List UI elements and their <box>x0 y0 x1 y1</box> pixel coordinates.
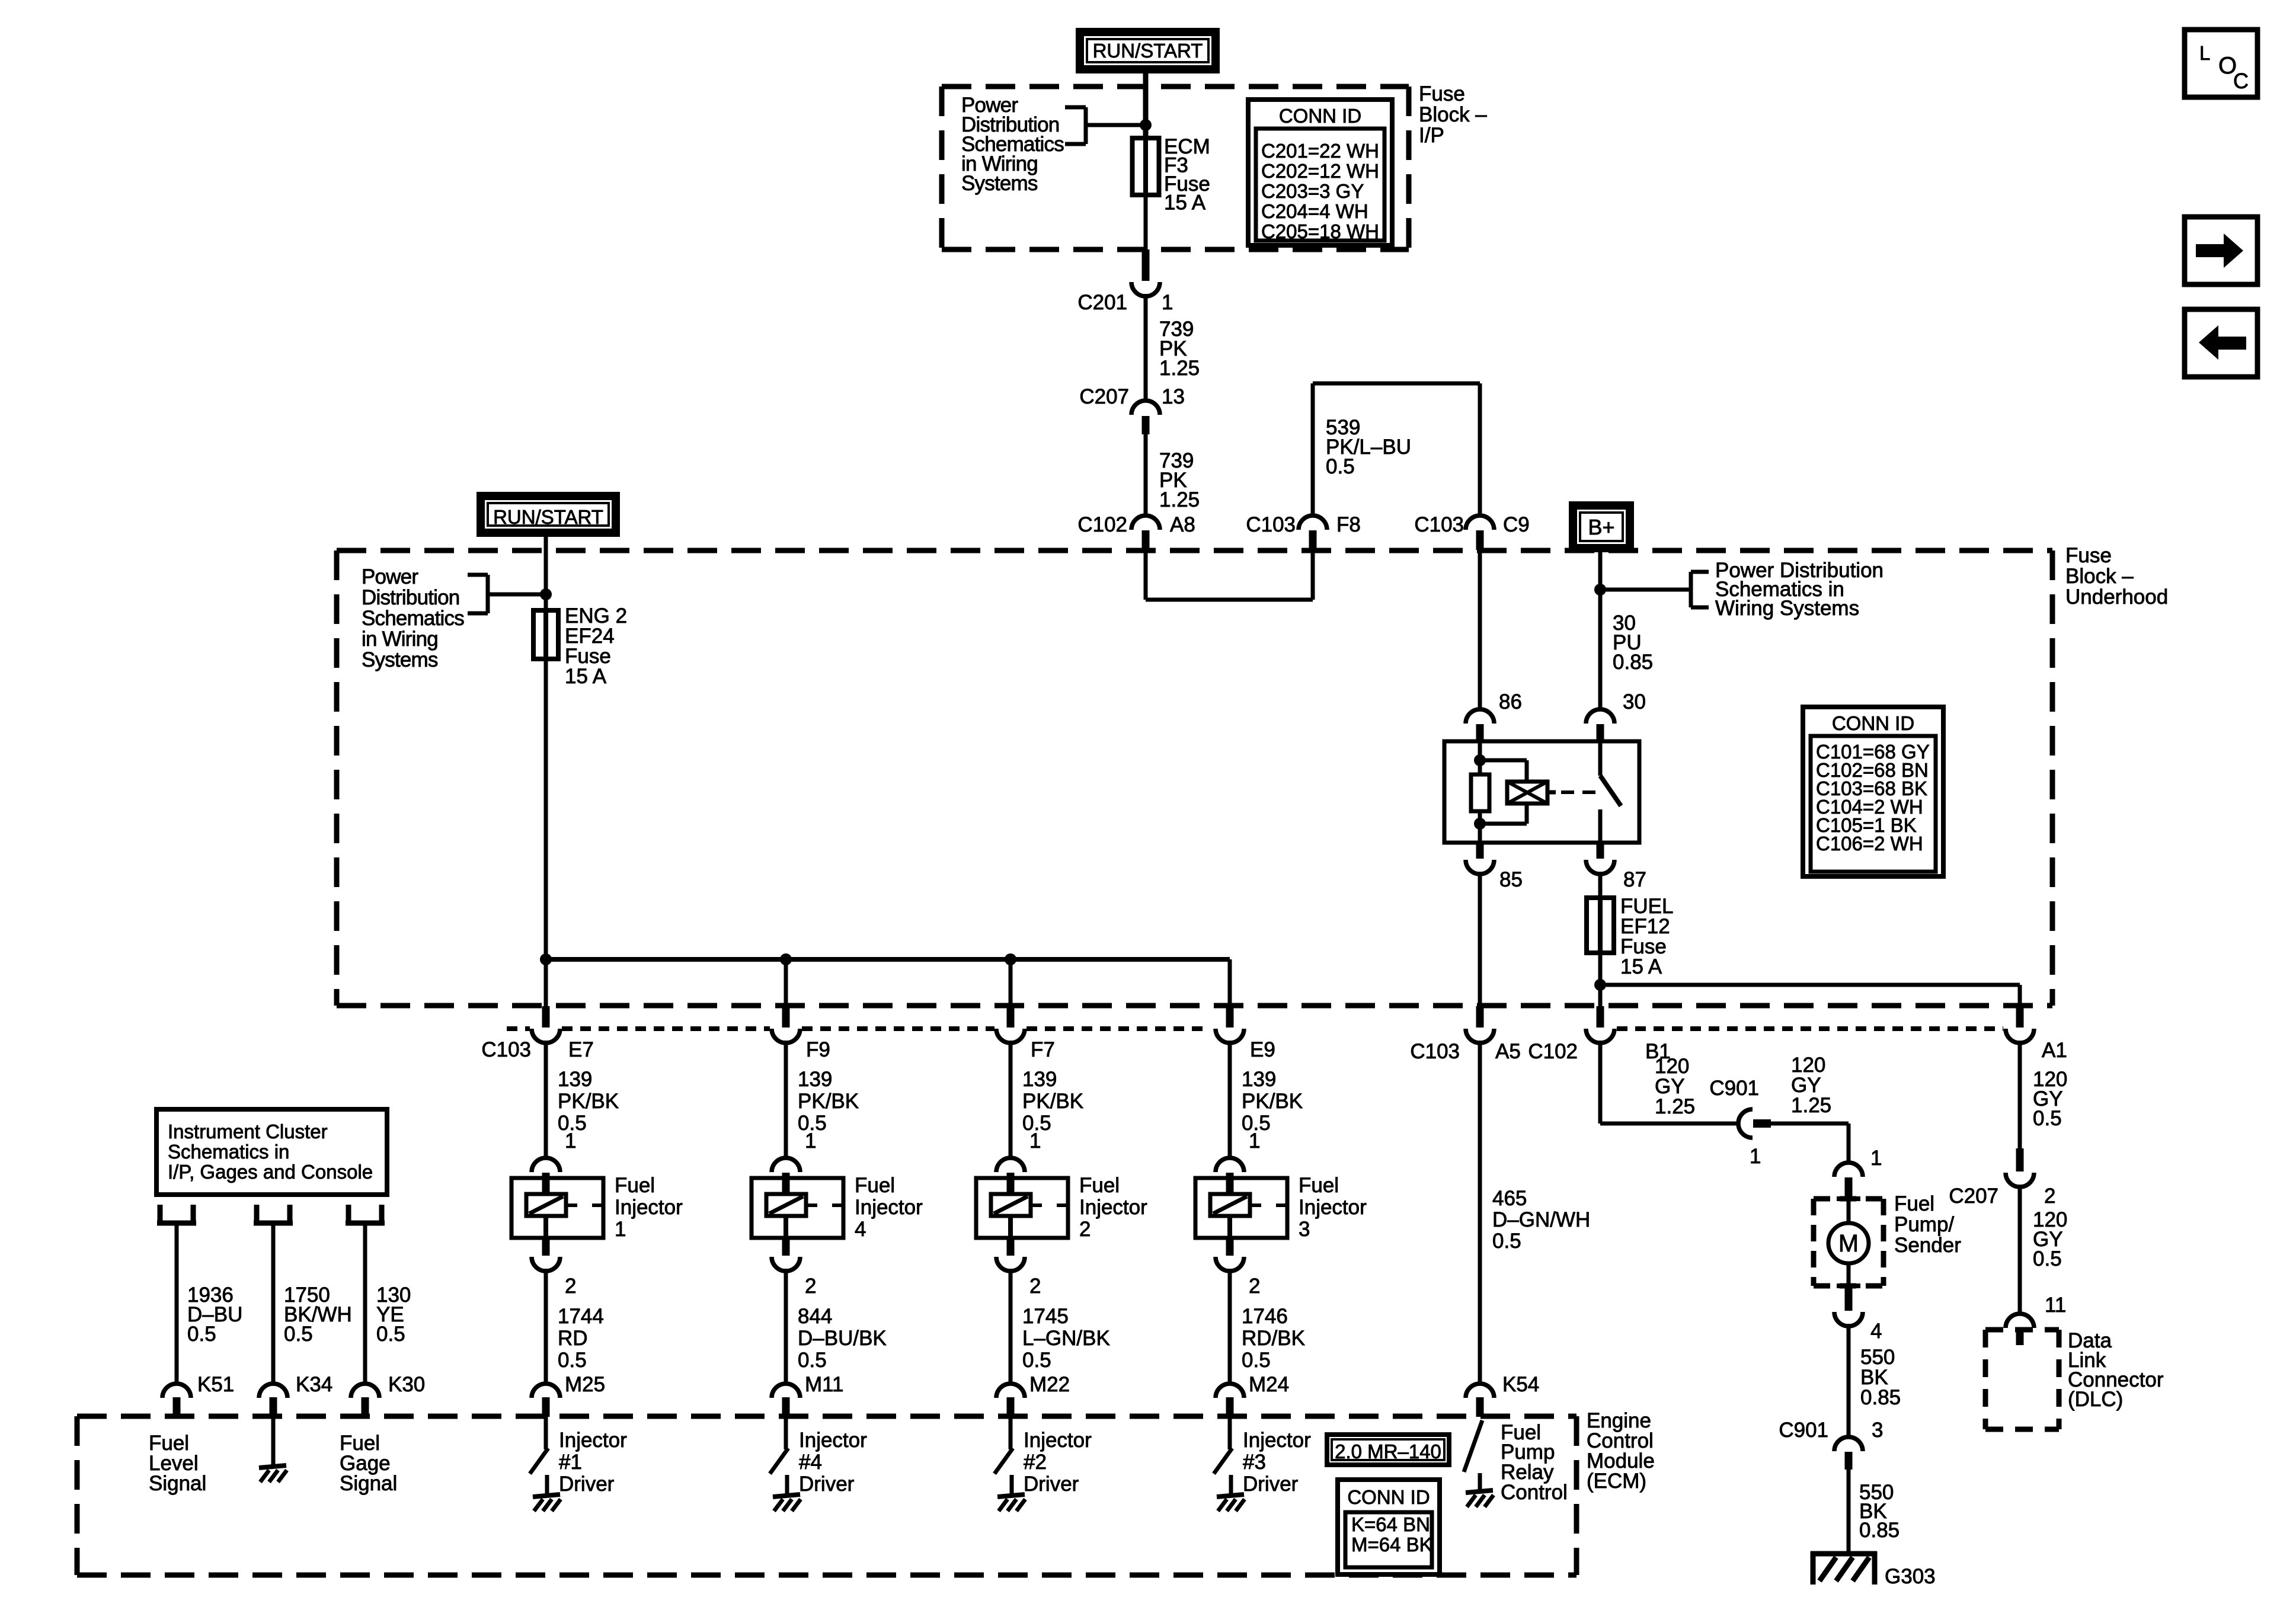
svg-text:1744: 1744 <box>558 1305 604 1328</box>
svg-text:CONN ID: CONN ID <box>1832 712 1914 734</box>
svg-text:Fuel: Fuel <box>855 1174 895 1197</box>
svg-text:M: M <box>1838 1230 1859 1257</box>
svg-text:Systems: Systems <box>362 648 438 671</box>
svg-text:#2: #2 <box>1024 1451 1047 1474</box>
svg-text:CONN ID: CONN ID <box>1279 105 1361 127</box>
svg-text:0.5: 0.5 <box>1326 455 1355 478</box>
svg-text:Injector: Injector <box>559 1429 627 1452</box>
svg-text:0.5: 0.5 <box>558 1112 587 1135</box>
svg-text:C9: C9 <box>1503 513 1530 536</box>
svg-text:RD/BK: RD/BK <box>1242 1327 1305 1350</box>
svg-text:K54: K54 <box>1502 1373 1539 1396</box>
svg-text:139: 139 <box>798 1068 832 1091</box>
svg-text:C204=4 WH: C204=4 WH <box>1261 200 1368 222</box>
svg-text:Fuel: Fuel <box>1894 1192 1934 1215</box>
svg-text:4: 4 <box>855 1218 866 1241</box>
svg-text:1.25: 1.25 <box>1159 488 1200 511</box>
svg-text:Driver: Driver <box>559 1473 615 1496</box>
svg-text:B+: B+ <box>1588 515 1614 539</box>
svg-text:C106=2 WH: C106=2 WH <box>1816 833 1923 854</box>
svg-text:C901: C901 <box>1709 1077 1759 1100</box>
svg-text:Schematics in: Schematics in <box>168 1141 289 1163</box>
svg-text:1: 1 <box>1162 291 1173 314</box>
svg-text:15 A: 15 A <box>1620 955 1662 978</box>
svg-text:A5: A5 <box>1495 1040 1521 1063</box>
svg-text:C203=3 GY: C203=3 GY <box>1261 180 1364 202</box>
svg-text:I/P, Gages and Console: I/P, Gages and Console <box>168 1161 373 1183</box>
svg-text:Injector: Injector <box>799 1429 867 1452</box>
svg-text:RUN/START: RUN/START <box>1093 40 1203 62</box>
svg-text:Pump/: Pump/ <box>1894 1213 1954 1236</box>
svg-text:Driver: Driver <box>1243 1473 1299 1496</box>
svg-text:C207: C207 <box>1079 385 1129 408</box>
svg-text:Fuse: Fuse <box>1419 82 1465 105</box>
svg-text:2: 2 <box>1249 1275 1260 1298</box>
svg-text:M22: M22 <box>1029 1373 1070 1396</box>
svg-text:C103: C103 <box>481 1038 531 1061</box>
svg-text:K34: K34 <box>296 1373 332 1396</box>
svg-text:Systems: Systems <box>961 172 1038 195</box>
svg-text:G303: G303 <box>1885 1565 1936 1588</box>
svg-text:1: 1 <box>615 1218 626 1241</box>
svg-text:2.0 MR–140: 2.0 MR–140 <box>1335 1441 1441 1462</box>
svg-text:0.5: 0.5 <box>1022 1112 1051 1135</box>
svg-text:844: 844 <box>798 1305 832 1328</box>
svg-text:C102: C102 <box>1528 1040 1578 1063</box>
svg-text:0.5: 0.5 <box>2033 1107 2062 1130</box>
svg-text:Block –: Block – <box>1419 103 1487 126</box>
svg-text:Fuel: Fuel <box>1299 1174 1339 1197</box>
svg-text:0.5: 0.5 <box>1242 1349 1271 1372</box>
svg-text:0.5: 0.5 <box>2033 1247 2062 1270</box>
svg-text:30: 30 <box>1623 690 1646 713</box>
svg-text:#4: #4 <box>799 1451 822 1474</box>
svg-text:M25: M25 <box>565 1373 605 1396</box>
svg-text:in Wiring: in Wiring <box>362 628 438 651</box>
svg-text:1.25: 1.25 <box>1159 357 1200 380</box>
svg-text:Injector: Injector <box>1299 1196 1367 1219</box>
svg-text:4: 4 <box>1870 1320 1882 1343</box>
svg-text:C103: C103 <box>1246 513 1296 536</box>
svg-text:Injector: Injector <box>855 1196 923 1219</box>
svg-text:2: 2 <box>1079 1218 1091 1241</box>
svg-text:Fuse: Fuse <box>2065 544 2112 567</box>
svg-text:Driver: Driver <box>1024 1473 1079 1496</box>
svg-text:I/P: I/P <box>1419 124 1444 147</box>
svg-text:2: 2 <box>1029 1275 1041 1298</box>
svg-text:C205=18 WH: C205=18 WH <box>1261 220 1379 242</box>
svg-text:1: 1 <box>1750 1145 1761 1168</box>
svg-text:0.5: 0.5 <box>376 1323 405 1346</box>
svg-text:Control: Control <box>1501 1481 1568 1504</box>
svg-text:0.85: 0.85 <box>1613 651 1653 674</box>
svg-text:C207: C207 <box>1949 1185 1998 1208</box>
svg-text:1.25: 1.25 <box>1655 1095 1695 1118</box>
svg-text:85: 85 <box>1499 868 1523 891</box>
svg-text:CONN ID: CONN ID <box>1347 1486 1430 1508</box>
svg-text:C103: C103 <box>1414 513 1464 536</box>
svg-text:1.25: 1.25 <box>1791 1094 1831 1117</box>
svg-text:0.5: 0.5 <box>798 1112 827 1135</box>
svg-text:Power: Power <box>362 565 418 588</box>
svg-text:1: 1 <box>1870 1147 1882 1170</box>
svg-text:E9: E9 <box>1250 1038 1275 1061</box>
svg-text:0.5: 0.5 <box>284 1323 313 1346</box>
svg-text:1746: 1746 <box>1242 1305 1288 1328</box>
svg-text:0.85: 0.85 <box>1860 1386 1901 1409</box>
svg-text:K51: K51 <box>197 1373 234 1396</box>
svg-text:A8: A8 <box>1170 513 1195 536</box>
svg-text:D–GN/WH: D–GN/WH <box>1492 1208 1590 1231</box>
svg-text:Signal: Signal <box>340 1472 397 1495</box>
svg-text:F7: F7 <box>1031 1038 1055 1061</box>
svg-text:Underhood: Underhood <box>2065 585 2168 609</box>
svg-text:C: C <box>2233 69 2249 93</box>
svg-text:PK/BK: PK/BK <box>1242 1090 1303 1113</box>
svg-text:RD: RD <box>558 1327 588 1350</box>
svg-text:Wiring Systems: Wiring Systems <box>1715 597 1859 620</box>
svg-text:C201=22 WH: C201=22 WH <box>1261 140 1379 162</box>
svg-text:PK/BK: PK/BK <box>558 1090 619 1113</box>
svg-text:Block –: Block – <box>2065 565 2134 588</box>
svg-text:Sender: Sender <box>1894 1234 1961 1257</box>
svg-text:PK/BK: PK/BK <box>798 1090 859 1113</box>
svg-text:139: 139 <box>558 1068 592 1091</box>
svg-text:L–GN/BK: L–GN/BK <box>1022 1327 1110 1350</box>
svg-text:15 A: 15 A <box>1164 191 1206 215</box>
svg-text:139: 139 <box>1022 1068 1057 1091</box>
svg-text:2: 2 <box>2044 1185 2055 1208</box>
svg-text:K=64 BN: K=64 BN <box>1351 1513 1430 1535</box>
svg-text:L: L <box>2199 42 2210 64</box>
svg-text:Signal: Signal <box>149 1472 206 1495</box>
svg-text:Driver: Driver <box>799 1473 855 1496</box>
svg-text:A1: A1 <box>2042 1039 2067 1062</box>
svg-text:(ECM): (ECM) <box>1587 1470 1646 1493</box>
svg-text:13: 13 <box>1162 385 1185 408</box>
svg-text:86: 86 <box>1499 690 1522 713</box>
svg-text:K30: K30 <box>388 1373 425 1396</box>
svg-text:F9: F9 <box>806 1038 830 1061</box>
svg-text:3: 3 <box>1299 1218 1310 1241</box>
svg-text:87: 87 <box>1623 868 1646 891</box>
svg-text:139: 139 <box>1242 1068 1276 1091</box>
svg-text:F8: F8 <box>1336 513 1361 536</box>
svg-text:0.5: 0.5 <box>1492 1230 1521 1253</box>
svg-text:0.85: 0.85 <box>1859 1519 1900 1542</box>
svg-text:M11: M11 <box>805 1373 844 1396</box>
svg-text:Schematics: Schematics <box>362 607 464 630</box>
svg-text:C102: C102 <box>1077 513 1127 536</box>
svg-text:Injector: Injector <box>615 1196 683 1219</box>
svg-text:D–BU/BK: D–BU/BK <box>798 1327 887 1350</box>
svg-text:Injector: Injector <box>1079 1196 1147 1219</box>
svg-text:PK/BK: PK/BK <box>1022 1090 1083 1113</box>
svg-text:C201: C201 <box>1077 291 1127 314</box>
svg-text:M=64 BK: M=64 BK <box>1351 1534 1432 1555</box>
svg-text:Injector: Injector <box>1024 1429 1092 1452</box>
svg-text:C202=12 WH: C202=12 WH <box>1261 160 1379 182</box>
svg-text:Fuel: Fuel <box>1079 1174 1120 1197</box>
svg-text:C901: C901 <box>1779 1419 1828 1442</box>
svg-text:0.5: 0.5 <box>798 1349 827 1372</box>
svg-text:RUN/START: RUN/START <box>493 506 603 528</box>
svg-text:2: 2 <box>565 1275 576 1298</box>
svg-text:#3: #3 <box>1243 1451 1266 1474</box>
svg-text:M24: M24 <box>1249 1373 1289 1396</box>
svg-text:0.5: 0.5 <box>1022 1349 1051 1372</box>
svg-text:#1: #1 <box>559 1451 582 1474</box>
svg-text:(DLC): (DLC) <box>2068 1388 2123 1411</box>
svg-text:Instrument Cluster: Instrument Cluster <box>168 1121 328 1142</box>
svg-text:0.5: 0.5 <box>1242 1112 1271 1135</box>
svg-text:E7: E7 <box>568 1038 594 1061</box>
svg-text:C103: C103 <box>1410 1040 1460 1063</box>
svg-text:0.5: 0.5 <box>187 1323 216 1346</box>
svg-text:0.5: 0.5 <box>558 1349 587 1372</box>
svg-text:465: 465 <box>1492 1187 1527 1210</box>
svg-text:Injector: Injector <box>1243 1429 1311 1452</box>
svg-text:11: 11 <box>2045 1294 2066 1317</box>
svg-text:Distribution: Distribution <box>362 586 459 609</box>
svg-text:1745: 1745 <box>1022 1305 1069 1328</box>
svg-text:2: 2 <box>805 1275 816 1298</box>
svg-text:Fuel: Fuel <box>615 1174 655 1197</box>
svg-text:15 A: 15 A <box>565 665 607 688</box>
svg-text:3: 3 <box>1872 1419 1883 1442</box>
